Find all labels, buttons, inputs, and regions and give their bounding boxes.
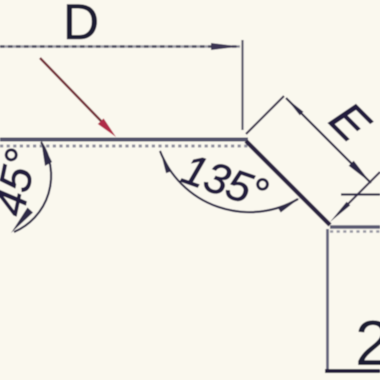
arrowhead of D dimension (right) <box>211 43 240 50</box>
arrowhead E upper <box>286 98 303 115</box>
wire: diagonal profile segment <box>246 141 330 225</box>
arrowhead E lower <box>349 161 371 183</box>
svg-text:D: D <box>63 0 99 50</box>
arc for 45 degree angle <box>14 142 51 232</box>
arrowhead pointing to lower corner <box>330 202 350 222</box>
dotted shadow under top profile <box>0 145 248 148</box>
arrowhead right of 135 arc <box>278 198 300 213</box>
arrowhead left of 135 arc <box>160 150 171 173</box>
wire: corner horizontal segment right <box>330 225 380 228</box>
dimension line E <box>286 98 371 183</box>
extension line 2 of E dimension with corner arrow <box>338 172 380 214</box>
dimension line bottom (partial 2x) <box>325 369 380 373</box>
wire: top horizontal profile segment <box>0 138 248 142</box>
arrowhead top of 45 arc <box>41 140 52 166</box>
dimension line D (horizontal) <box>0 45 240 47</box>
leader line horizontal right <box>341 193 380 195</box>
extension line right of D <box>241 40 243 130</box>
red pointer arrow <box>40 58 102 122</box>
extension line 1 of E dimension <box>246 96 284 134</box>
arrowhead bottom of 45 arc <box>11 208 33 234</box>
wire: vertical profile segment right <box>326 229 329 371</box>
arc for 135 degree angle <box>160 151 298 212</box>
svg-text:2: 2 <box>355 307 380 379</box>
